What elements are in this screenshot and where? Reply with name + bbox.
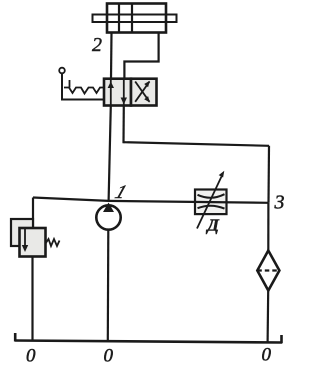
- wire corridor to right side: [124, 142, 270, 146]
- svg-text:3: 3: [274, 192, 285, 214]
- svg-text:0: 0: [104, 346, 114, 367]
- throttle adjust arrow: [197, 171, 224, 229]
- pump 1: [96, 203, 120, 230]
- valve V1 right position crossed arrows: [135, 81, 150, 103]
- filter: [257, 251, 279, 291]
- spring (valve return): [64, 80, 104, 94]
- valve V1 left position flow arrows: [108, 79, 127, 106]
- wire valve right exit down: [122, 106, 125, 144]
- throttle venturi arcs: [198, 194, 225, 208]
- wire cylinder right port step to valve: [124, 33, 158, 79]
- svg-text:0: 0: [26, 346, 36, 367]
- wire node 3 to filter: [267, 203, 269, 251]
- valve V1 body: [104, 79, 157, 106]
- wire main line left (pump to relief): [33, 198, 109, 201]
- wire cylinder left port to valve: [110, 33, 113, 80]
- cylinder 2: [93, 4, 177, 33]
- relief valve: [11, 219, 46, 257]
- wire valve to pump: [109, 106, 111, 201]
- relief valve spring: [46, 239, 60, 246]
- wire main line right (pump to node 3): [109, 201, 269, 203]
- wire pump to tank: [107, 230, 110, 342]
- wire relief to tank: [31, 257, 33, 342]
- lever actuator: [59, 68, 104, 100]
- wire right drop to node 3: [267, 146, 270, 203]
- svg-text:Д: Д: [205, 216, 220, 235]
- tank line 0: [15, 333, 282, 343]
- throttle valve body: [195, 190, 227, 215]
- svg-text:1: 1: [112, 183, 129, 203]
- wire filter to tank: [267, 291, 270, 343]
- wire relief drop: [32, 198, 34, 229]
- svg-text:0: 0: [262, 345, 272, 366]
- svg-text:2: 2: [92, 34, 102, 56]
